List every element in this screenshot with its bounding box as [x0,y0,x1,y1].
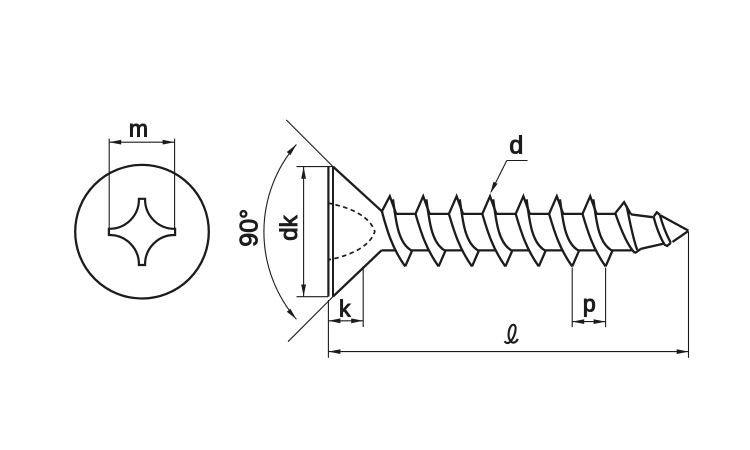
90 degree arc arrow top [287,145,297,156]
thread top root segment 3 [463,213,482,215]
thread bottom root segment 7 [612,249,632,251]
dimension k extension left (shared with l) [327,300,329,358]
90 degree arc arrow bottom [287,309,297,320]
head cone bottom edge [333,250,382,296]
svg-text:k: k [339,296,351,322]
phillips cross recess [109,199,175,265]
tip collar bottom point [664,243,671,246]
thread top crest 2 [416,196,430,214]
dimension p extension right [605,268,607,328]
tip collar right edge [660,215,671,243]
tip collar left edge [654,217,665,245]
thread bottom crest right flank 6 [572,251,579,267]
label l (script ell) [505,325,518,343]
dimension m extension line left [108,139,110,229]
thread helix flank left 5 [516,214,539,267]
thread helix flank left 2 [416,214,439,267]
thread helix flank right 7 [593,199,612,250]
thread top root segment 2 [430,213,449,215]
dimension k line [328,320,363,322]
thread bottom crest right flank 2 [439,251,446,267]
tip helix flank right 8 [627,206,638,250]
thread bottom root segment 4 [512,249,529,251]
tip cone bottom edge to point [673,231,689,242]
dimension p extension left [571,268,573,328]
thread helix flank left 3 [449,214,472,267]
thread bottom root segment 5 [545,249,562,251]
svg-text:dk: dk [276,214,303,240]
dimension p arrow right [594,319,606,324]
thread top root segment 5 [530,213,549,215]
thread helix flank right 2 [426,199,445,250]
construction line upper 45deg [286,120,333,167]
tip helix flank left 8 [615,213,635,253]
thread top crest 4 [482,196,496,214]
thread top root segment 1 [396,213,415,215]
dimension k arrow left [328,318,340,323]
dimension dk line [303,167,305,296]
dimension dk extension bottom [297,296,329,298]
head cone top edge [333,167,382,212]
thread bottom crest right flank 1 [405,251,412,267]
dimension l arrow right [677,349,689,354]
thread top root segment 4 [496,213,515,215]
tip collar top peak [654,212,660,217]
construction line lower 45deg [288,297,333,342]
thread bottom root segment 1 [412,249,429,251]
thread bottom root segment 2 [445,249,462,251]
dimension m line [109,141,174,143]
dimension p line [572,321,605,323]
tip taper top edge left [631,214,653,217]
thread top crest 6 [549,196,563,214]
dimension l arrow left [328,349,340,354]
svg-text:d: d [509,132,523,160]
thread top crest 7 [583,196,597,214]
leader d slant [491,161,507,193]
thread top root segment 7 [597,213,616,215]
thread bottom crest right flank 7 [606,251,613,267]
thread bottom crest right flank 3 [472,251,479,267]
leader d horizontal [507,160,528,162]
svg-text:m: m [129,116,148,142]
thread bottom crest right flank 4 [505,251,512,267]
dimension k extension right [362,266,364,327]
thread helix flank left 4 [482,214,505,267]
dimension dk arrow bottom [301,285,306,297]
thread helix flank left 6 [549,214,572,267]
thread bottom root segment 6 [579,249,596,251]
svg-text:p: p [583,291,596,317]
tip taper bottom edge left [641,243,665,248]
dimension m extension line right [174,139,176,229]
thread top crest 1 [382,196,396,214]
thread top crest 3 [449,196,463,214]
tip bottom small crest right flank [635,249,641,253]
screw head front view circle [75,165,209,299]
head flat face left line [327,167,329,297]
dimension l line [328,351,688,353]
thread top root segment 6 [563,213,582,215]
leader d arrowhead [490,182,497,194]
head flat face right line [332,167,334,297]
thread bottom crest right flank 5 [539,251,546,267]
thread helix flank right 1 [393,199,412,250]
thread helix flank right 4 [493,199,512,250]
thread helix flank left 1 [382,211,405,266]
dimension m arrow right [163,140,175,145]
thread bottom root segment 0 [382,249,396,251]
dimension k arrow right [351,318,363,323]
thread helix flank right 3 [460,199,479,250]
hidden recess profile dashed [328,203,375,260]
tip cone top edge to point [660,215,688,230]
dimension dk extension top [297,166,333,168]
thread helix flank left 7 [583,214,606,267]
thread bottom root segment 3 [478,249,495,251]
90 degree angle arc [264,145,296,320]
svg-text:90°: 90° [236,209,264,247]
dimension l extension right (tip) [688,232,690,358]
dimension dk arrow top [301,167,306,179]
tip thread top crest 8 [615,202,631,214]
dimension m arrow left [109,140,121,145]
thread top crest 5 [516,196,530,214]
dimension p arrow left [572,319,584,324]
thread helix flank right 5 [527,199,546,250]
thread helix flank right 6 [560,199,579,250]
